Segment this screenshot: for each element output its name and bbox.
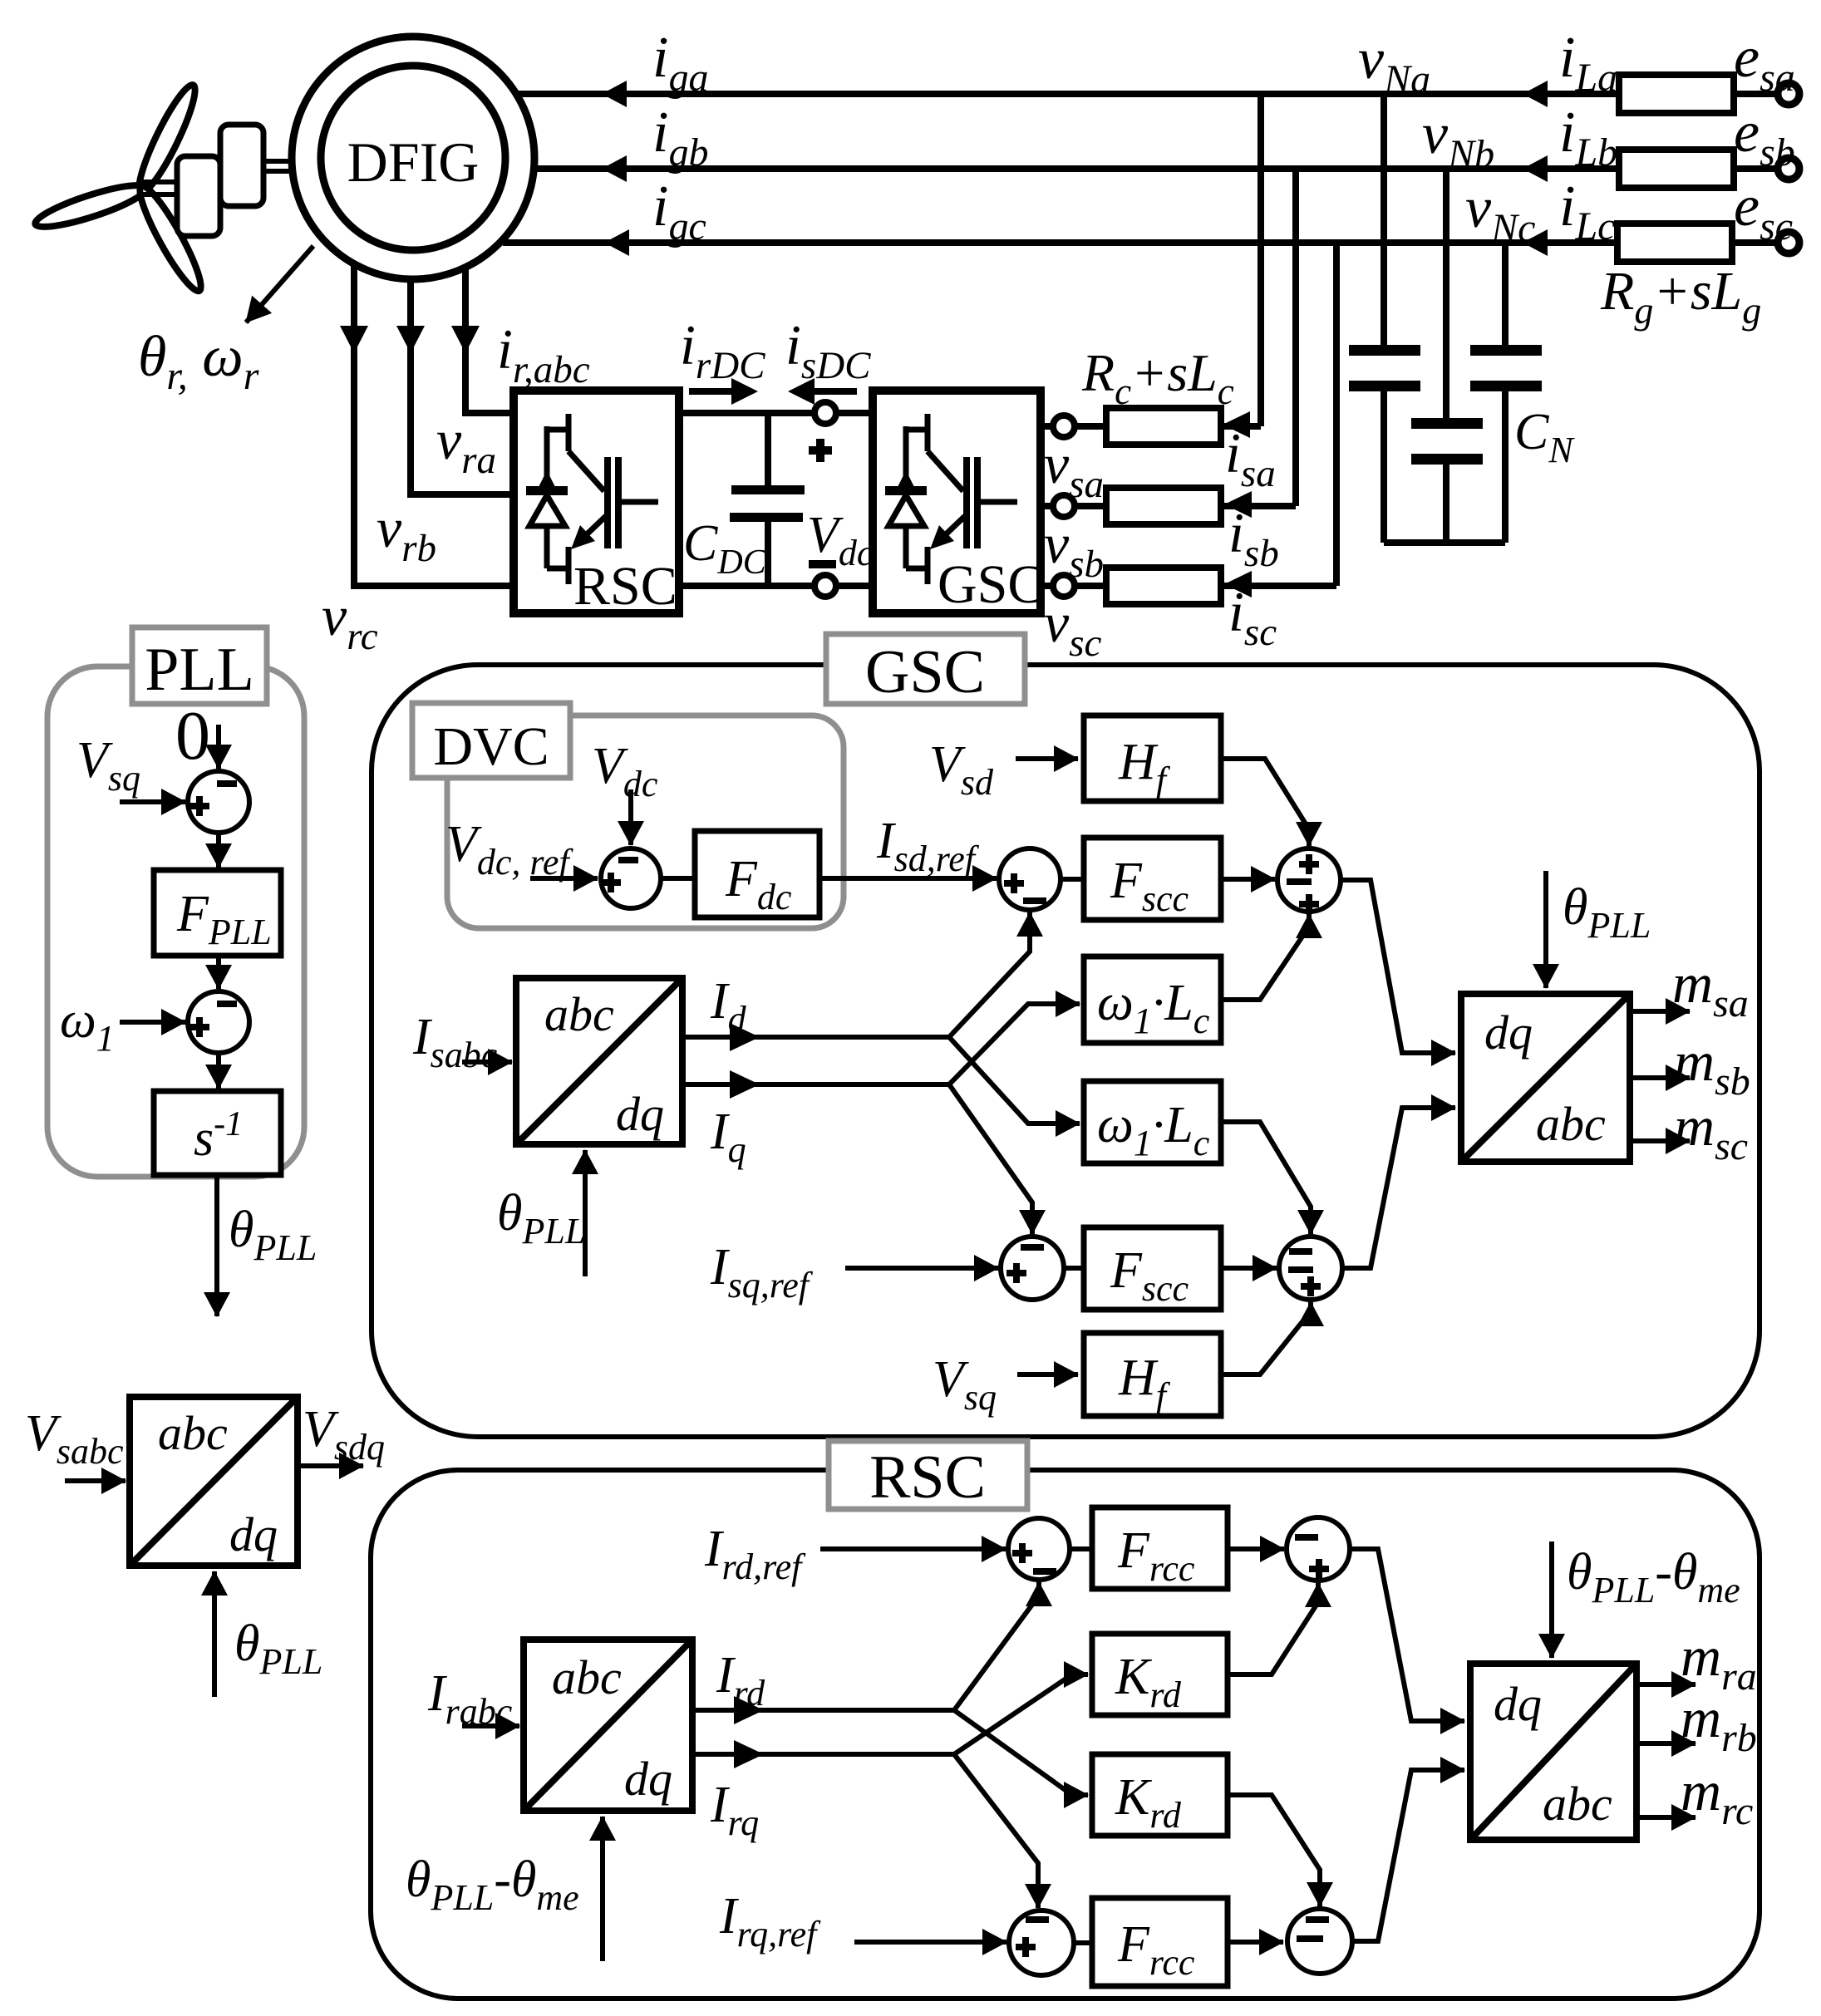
wire terminal b to resistor <box>1075 503 1106 509</box>
wire resistor c to source terminal <box>1732 239 1779 246</box>
wire I_rd to K_rd lower <box>954 1710 1088 1795</box>
i_rDC arrow <box>689 388 733 395</box>
wire RSC to DC link top <box>679 410 873 416</box>
wire K_rd upper to G bottom <box>1228 1583 1318 1674</box>
arrow on bus a near DFIG <box>602 81 627 107</box>
wire summing 2 to integrator <box>216 1053 221 1089</box>
wire GSC to terminal c <box>1041 583 1054 589</box>
K_rd block upper <box>1092 1634 1228 1715</box>
arrow on rotor wire b <box>396 326 425 353</box>
node C drop wire to i_sc <box>1333 243 1340 586</box>
wire I_q feedback to B <box>949 1084 1032 1234</box>
svg-text:abc: abc <box>552 1650 622 1704</box>
DC plus sign <box>809 439 832 462</box>
wire resistor a to source terminal <box>1734 91 1779 97</box>
wire H output to dq block RSC <box>1352 1770 1464 1941</box>
wire m_sa output <box>1630 1009 1690 1014</box>
wire omega1Lc lower to D top <box>1221 1122 1311 1234</box>
resistor Rg phase a <box>1619 75 1734 113</box>
summing junction B <box>1001 1237 1064 1300</box>
node B drop wire to i_sb <box>1292 169 1299 506</box>
rotor wire v_rb <box>411 278 514 494</box>
svg-text:θr, ωr: θr, ωr <box>138 325 259 398</box>
DVC box <box>447 715 844 928</box>
wire terminal c to resistor <box>1075 583 1106 589</box>
wire i_sb <box>1221 503 1296 509</box>
wire K_rd lower to H top <box>1228 1795 1320 1906</box>
svg-text:dq: dq <box>624 1752 672 1806</box>
wire I_rd <box>692 1708 954 1713</box>
wire V_sq into summing 1 <box>120 799 185 804</box>
svg-text:GSC: GSC <box>938 554 1044 615</box>
wire F_scc d to summing C <box>1221 877 1275 882</box>
wire theta_PLL into Vs block <box>212 1571 217 1697</box>
summing junction D <box>1279 1237 1342 1300</box>
F_scc block q-axis <box>1084 1227 1221 1310</box>
svg-text:dq: dq <box>1494 1677 1542 1731</box>
wire I_d feedback to A <box>949 912 1030 1037</box>
i_sDC arrow <box>813 388 857 395</box>
wire I_rq to K_rd upper <box>954 1674 1088 1754</box>
PLL summing junction 1 <box>188 771 249 833</box>
capacitor CN phase a wire <box>1381 94 1387 543</box>
wire V_sdq output <box>298 1463 363 1468</box>
F_dc block <box>695 831 819 917</box>
wire summing 1 to F_PLL <box>216 833 221 868</box>
svg-text:dq: dq <box>229 1507 278 1561</box>
summing junction H <box>1287 1909 1352 1974</box>
svg-text:PLL: PLL <box>145 636 254 704</box>
H_f block q-axis <box>1084 1333 1221 1416</box>
arrow on bus b near DFIG <box>602 155 627 182</box>
wire I_q to omega1Lc upper <box>949 1004 1080 1084</box>
wire F_rcc q to H <box>1228 1940 1283 1945</box>
DFIG machine inner circle <box>321 66 505 250</box>
wire F to F_rcc q <box>1074 1940 1092 1945</box>
wire theta_PLL into Is block <box>583 1150 588 1276</box>
F_scc block d-axis <box>1084 838 1221 920</box>
GSC control title box <box>826 634 1025 704</box>
summing junction A <box>999 848 1061 910</box>
GSC converter box <box>873 391 1041 613</box>
capacitor CN phase a plates <box>1349 345 1420 356</box>
PLL outer box <box>47 666 304 1177</box>
rotor wire v_ra <box>465 266 514 413</box>
wire B to F_scc q <box>1064 1266 1084 1271</box>
wire bus phase b <box>534 165 1619 172</box>
svg-text:DVC: DVC <box>433 716 549 777</box>
svg-text:abc: abc <box>1536 1097 1606 1151</box>
wire C output to dq block <box>1341 880 1455 1053</box>
integrator s^-1 block <box>154 1091 281 1175</box>
summing junction C <box>1277 848 1341 912</box>
GSC terminal a <box>1053 415 1075 437</box>
RSC control title box <box>829 1441 1027 1509</box>
svg-text:Rg+sLg: Rg+sLg <box>1600 261 1761 332</box>
arrow to rotor speed label <box>246 246 313 322</box>
wire m_sb output <box>1630 1075 1690 1080</box>
svg-text:GSC: GSC <box>865 638 985 706</box>
summing junction F <box>1009 1910 1074 1975</box>
Vs abc-dq transform block <box>130 1397 298 1566</box>
F_rcc block q-axis <box>1092 1898 1228 1986</box>
PLL summing junction 2 <box>188 991 249 1053</box>
wire m_rc output <box>1636 1815 1695 1820</box>
wire m_rb output <box>1636 1741 1695 1746</box>
wire I_sd,ref to summing A <box>819 876 997 881</box>
wire terminal a to resistor <box>1075 423 1106 430</box>
wire I_rd feedback to E <box>954 1582 1039 1710</box>
capacitor CN phase b wire <box>1443 169 1449 543</box>
wire RSC to DC link bottom <box>679 583 873 589</box>
wire theta_PLL-theta_me into Ir block <box>600 1817 605 1961</box>
resistor Rg phase b <box>1619 150 1734 188</box>
arrow on bus c near grid <box>1523 229 1548 256</box>
wire F_rcc d to G <box>1228 1546 1284 1551</box>
wire I_sq,ref to B <box>845 1266 998 1271</box>
CN star point bus <box>1384 539 1505 546</box>
turbine shaft high-speed <box>263 161 293 171</box>
terminal e_sc <box>1778 232 1799 253</box>
svg-text:0: 0 <box>175 697 210 774</box>
wire omega1Lc upper to C bottom <box>1221 914 1309 1000</box>
GSC control outer box <box>372 665 1759 1437</box>
arrow on bus a near grid <box>1523 81 1548 107</box>
wire i_sc <box>1221 583 1336 589</box>
RSC IGBT with diode <box>526 414 658 584</box>
wire G output to dq block RSC <box>1350 1549 1464 1721</box>
capacitor C_DC plates <box>731 485 805 494</box>
svg-text:abc: abc <box>544 987 614 1041</box>
RSC control outer box <box>371 1470 1759 1999</box>
wire GSC to terminal b <box>1041 503 1054 509</box>
PLL title box <box>132 627 267 704</box>
wire I_rd,ref to E <box>820 1546 1006 1551</box>
DC terminal bottom <box>815 575 836 597</box>
resistor Rc phase b <box>1106 488 1221 524</box>
rotor wire v_rc <box>354 266 514 586</box>
wire I_q <box>682 1082 949 1087</box>
wire I_d <box>682 1035 949 1040</box>
dq-abc transform block RSC <box>1470 1664 1636 1840</box>
wire F_PLL to summing 2 <box>216 956 221 989</box>
svg-text:DFIG: DFIG <box>347 130 480 194</box>
wire GSC to terminal a <box>1041 423 1054 430</box>
wire I_sabc input <box>462 1060 512 1065</box>
wire theta_PLL output <box>214 1175 219 1316</box>
wire m_ra output <box>1636 1682 1695 1687</box>
wire V_sabc input <box>65 1478 126 1483</box>
wire V_sq into H_f q <box>1017 1372 1078 1377</box>
dq-abc transform block GSC <box>1461 994 1630 1162</box>
Is abc-dq transform block <box>516 978 682 1144</box>
resistor Rc phase c <box>1106 568 1221 604</box>
wire i_sa <box>1221 423 1261 430</box>
gearbox box 1 <box>177 156 220 236</box>
DVC summing junction <box>601 848 661 908</box>
wire theta_PLL-theta_me into dq block RSC <box>1549 1542 1554 1658</box>
svg-text:Rc+sLc: Rc+sLc <box>1081 343 1234 412</box>
wire I_d to omega1Lc lower <box>949 1037 1080 1124</box>
arrow on rotor wire a <box>451 326 480 353</box>
capacitor CN phase b plates <box>1411 418 1483 429</box>
wind turbine rotor blades <box>32 81 209 297</box>
GSC terminal c <box>1053 575 1075 597</box>
wire bus phase a <box>515 91 1619 97</box>
svg-text:dq: dq <box>1484 1006 1533 1060</box>
arrow on bus c near DFIG <box>604 229 629 256</box>
terminal e_sa <box>1778 83 1799 105</box>
K_rd block lower <box>1092 1754 1228 1836</box>
wire I_rq feedback to F <box>954 1754 1038 1908</box>
wire omega_1 into summing 2 <box>120 1020 185 1025</box>
F_PLL block <box>154 870 281 956</box>
wire m_sc output <box>1630 1138 1690 1143</box>
GSC terminal b <box>1053 495 1075 517</box>
wire bus phase c <box>503 239 1617 246</box>
omega1 Lc block lower <box>1084 1081 1221 1163</box>
terminal e_sb <box>1778 158 1799 179</box>
wire D output to dq block <box>1342 1108 1455 1268</box>
summing junction G <box>1287 1517 1350 1581</box>
svg-text:abc: abc <box>1543 1777 1612 1831</box>
capacitor C_DC wire <box>765 413 771 586</box>
omega1 Lc block upper <box>1084 956 1221 1043</box>
wire V_sd into H_f <box>1016 756 1078 761</box>
wire H_f q to D bottom <box>1221 1302 1311 1374</box>
arrow on bus b near grid <box>1523 155 1548 182</box>
wire I_rq,ref to F <box>854 1940 1006 1945</box>
summing junction E <box>1008 1518 1070 1580</box>
resistor Rg phase c <box>1617 224 1732 262</box>
GSC IGBT with diode <box>885 414 1017 584</box>
arrow on rotor wire c <box>340 326 368 353</box>
wire I_rabc input <box>462 1723 519 1728</box>
wire zero to PLL summing 1 <box>216 725 221 769</box>
svg-text:dq: dq <box>616 1087 664 1141</box>
wire I_rq <box>692 1752 954 1757</box>
RSC converter box <box>514 391 679 613</box>
Ir abc-dq transform block <box>524 1640 692 1811</box>
wire theta_PLL into dq block GSC <box>1543 871 1548 988</box>
turbine shaft low-speed <box>141 182 180 194</box>
resistor Rc phase a <box>1106 408 1221 445</box>
svg-text:abc: abc <box>158 1406 228 1460</box>
capacitor CN phase c wire <box>1502 243 1508 543</box>
F_rcc block d-axis <box>1092 1507 1228 1589</box>
capacitor CN phase c plates <box>1470 345 1542 356</box>
svg-text:RSC: RSC <box>869 1443 986 1512</box>
svg-text:RSC: RSC <box>573 556 677 617</box>
gearbox box 2 <box>220 125 263 206</box>
wire DVC summing to F_dc <box>661 876 695 881</box>
H_f block d-axis <box>1084 715 1221 801</box>
wire F_scc q to summing D <box>1221 1266 1277 1271</box>
wire E to F_rcc d <box>1070 1546 1092 1551</box>
wire V_dc,ref into DVC summing <box>530 876 598 881</box>
wire resistor b to source terminal <box>1734 165 1779 172</box>
wire V_dc into DVC summing <box>628 789 633 845</box>
DC terminal top <box>815 402 836 424</box>
wire A to F_scc d <box>1061 877 1084 882</box>
DFIG machine outer circle <box>292 37 534 279</box>
wire H_f d to summing C top <box>1221 759 1309 846</box>
node A drop wire to i_sa <box>1257 94 1264 426</box>
DVC title box <box>412 703 570 778</box>
